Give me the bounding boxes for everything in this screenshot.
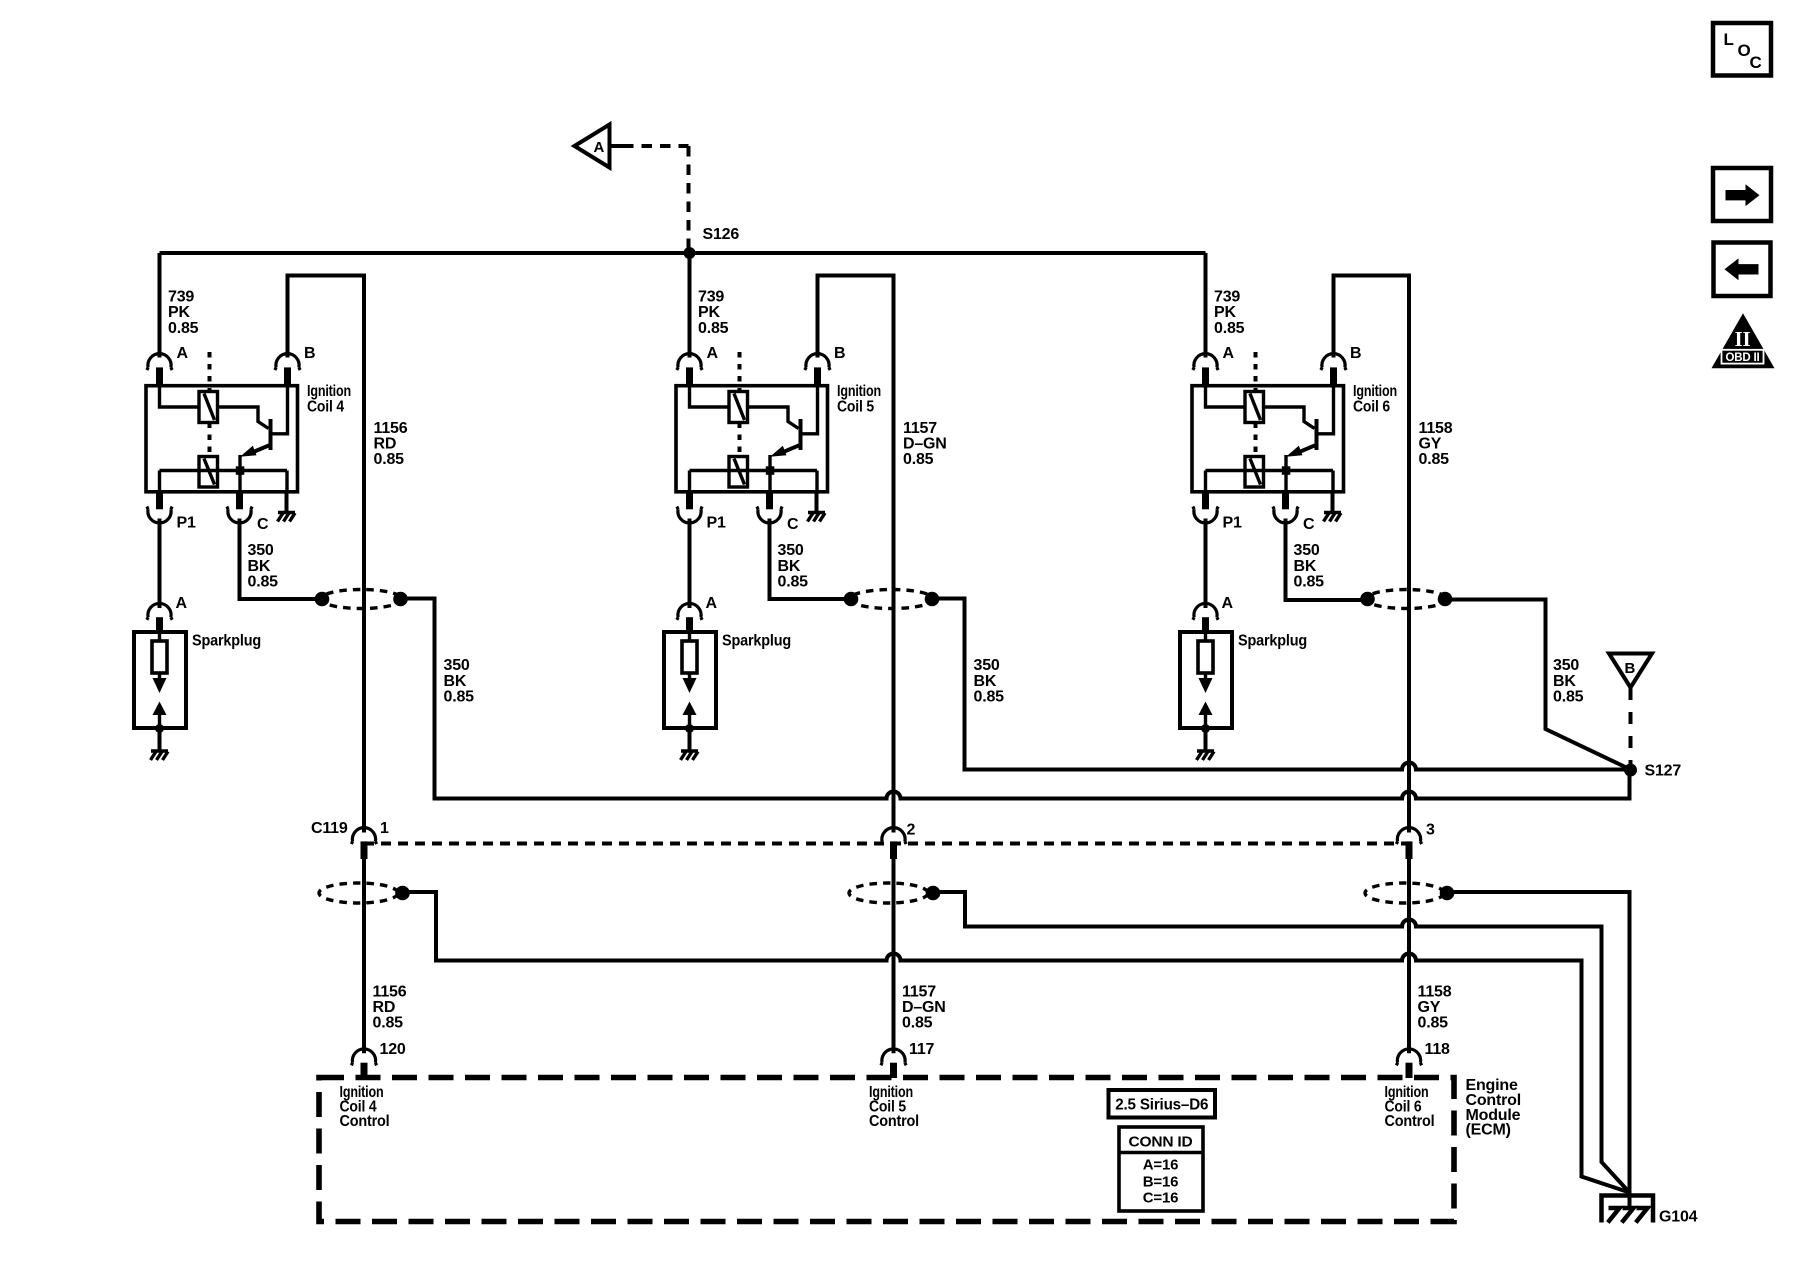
label 1157 D–GN 0.85 upper	[903, 420, 947, 468]
svg-text:1157: 1157	[902, 983, 936, 1000]
label 1157 D–GN 0.85 lower	[902, 983, 946, 1031]
connector pass-through ellipse coil 5 row1	[850, 590, 934, 609]
svg-text:G104: G104	[1659, 1209, 1698, 1226]
label 350 BK 0.85 coil 4	[248, 542, 279, 591]
coil 6 pin A	[1193, 345, 1235, 386]
engine control module box (dashed)	[319, 1078, 1454, 1222]
label ignition coil 6	[1353, 383, 1397, 415]
ignition coil 5 box	[676, 386, 828, 492]
coil 6 emitter to pin C wire	[1284, 455, 1287, 492]
svg-text:BK: BK	[1553, 673, 1576, 690]
svg-text:0.85: 0.85	[778, 574, 809, 591]
wire coil 4 P1 to sparkplug	[158, 519, 162, 609]
coil 4 core (dashed)	[208, 352, 212, 457]
splice S126	[684, 226, 740, 259]
svg-text:739: 739	[1214, 288, 1240, 305]
sparkplug 5 box	[664, 632, 791, 728]
svg-text:BK: BK	[1294, 558, 1317, 575]
off-page connector triangle B	[1609, 654, 1652, 688]
svg-text:0.85: 0.85	[974, 689, 1005, 706]
ECM pin 118	[1396, 1041, 1450, 1078]
wire 739 PK to coil 6 pin A	[1204, 253, 1208, 358]
coil 5 pin B	[805, 345, 846, 386]
svg-text:B: B	[1625, 660, 1636, 677]
wire coil 6 P1 to sparkplug	[1204, 519, 1208, 609]
label ignition coil 6 control	[1385, 1084, 1435, 1130]
sparkplug 6 ground	[1197, 724, 1215, 760]
svg-text:RD: RD	[374, 435, 397, 452]
coil 4 primary winding	[199, 392, 218, 423]
svg-text:BK: BK	[248, 558, 271, 575]
sparkplug 4 pin A	[147, 595, 188, 632]
svg-text:0.85: 0.85	[373, 1014, 404, 1031]
sparkplug 5 resistor	[682, 632, 697, 673]
svg-text:D–GN: D–GN	[902, 999, 946, 1016]
label ignition coil 5 control	[869, 1084, 919, 1130]
splice dot coil 5 row2	[926, 886, 941, 901]
sparkplug 5 gap arrows	[683, 673, 697, 728]
connector C119 pin 2	[881, 822, 916, 860]
svg-text:1158: 1158	[1419, 420, 1453, 437]
label engine control module	[1466, 1077, 1521, 1139]
coil 6 secondary winding	[1245, 457, 1264, 488]
wire 739 PK to coil 5 pin A	[688, 253, 692, 358]
svg-text:350: 350	[778, 542, 804, 559]
connector pass-through ellipse coil 6 row2	[1365, 883, 1444, 903]
transistor Q5 collector wire from pin B	[801, 386, 818, 434]
coil 6 core (dashed)	[1254, 352, 1258, 457]
sparkplug 4 ground	[151, 724, 169, 760]
svg-text:A: A	[177, 345, 189, 362]
svg-text:Coil 5: Coil 5	[837, 398, 874, 415]
off-page connector triangle A	[575, 125, 610, 168]
svg-text:0.85: 0.85	[1553, 689, 1584, 706]
connector C119 pin 3	[1396, 822, 1435, 860]
splice dot coil 6 row2	[1440, 886, 1455, 901]
sparkplug 6 resistor	[1198, 632, 1213, 673]
transistor Q5 base bar	[799, 419, 803, 450]
svg-text:Coil 6: Coil 6	[1353, 398, 1390, 415]
CONN ID table	[1119, 1127, 1203, 1211]
svg-text:D–GN: D–GN	[903, 435, 947, 452]
connector C119 pin 1	[351, 820, 389, 859]
svg-text:II: II	[1735, 327, 1751, 351]
svg-text:2: 2	[907, 822, 916, 839]
svg-text:Control: Control	[340, 1113, 390, 1130]
label 1158 GY 0.85 upper	[1419, 420, 1453, 468]
svg-text:739: 739	[698, 288, 724, 305]
coil 5 primary winding	[729, 392, 748, 423]
coil 4 internal junction	[236, 466, 245, 475]
transistor Q6 emitter	[1286, 444, 1318, 457]
sparkplug 4 gap arrows	[153, 673, 167, 728]
svg-text:PK: PK	[168, 304, 190, 321]
svg-text:350: 350	[1294, 542, 1320, 559]
svg-text:BK: BK	[778, 558, 801, 575]
svg-text:PK: PK	[698, 304, 720, 321]
svg-text:C: C	[257, 516, 269, 533]
wire 350 BK coil 5 pin C to splice	[770, 519, 845, 600]
wire 350 BK coil 4 pin C to splice	[240, 519, 316, 600]
label 2.5 Sirius-D6	[1109, 1090, 1216, 1118]
connector pass-through ellipse coil 5 row2	[849, 883, 928, 903]
coil 5 secondary winding	[729, 457, 748, 488]
svg-text:BK: BK	[974, 673, 997, 690]
coil 5 pin A	[677, 345, 719, 386]
svg-text:Sparkplug: Sparkplug	[722, 633, 791, 650]
ignition coil 4 box	[146, 386, 298, 492]
sparkplug 5 ground	[681, 724, 699, 760]
splice S127	[1624, 762, 1681, 779]
svg-text:CONN ID: CONN ID	[1129, 1134, 1193, 1151]
svg-text:0.85: 0.85	[248, 574, 279, 591]
wire 350 BK coil 4 to S127	[401, 599, 1630, 799]
svg-text:A=16: A=16	[1143, 1157, 1178, 1174]
ECM pin 117	[881, 1041, 935, 1078]
label 350 BK 0.85 route 5	[974, 657, 1005, 706]
connector C119 label	[311, 820, 348, 837]
svg-text:0.85: 0.85	[902, 1014, 933, 1031]
coil 5 internal wire A to primary	[690, 386, 730, 407]
splice dot coil 4 row2	[395, 886, 410, 901]
svg-text:Sparkplug: Sparkplug	[1238, 633, 1307, 650]
coil 6 internal wire A to primary	[1206, 386, 1246, 407]
coil 6 case ground	[1324, 492, 1342, 522]
svg-text:0.85: 0.85	[698, 320, 729, 337]
splice dot coil 4 row1 left	[315, 592, 330, 607]
svg-text:0.85: 0.85	[1214, 320, 1245, 337]
coil 6 wire primary to transistor base	[1264, 407, 1315, 429]
ground G104	[1602, 1196, 1698, 1226]
coil 5 internal junction	[766, 466, 775, 475]
svg-text:1: 1	[380, 820, 389, 837]
wire coil 4 pin B to wire 1156	[288, 276, 365, 833]
svg-text:0.85: 0.85	[1294, 574, 1325, 591]
svg-text:Control: Control	[1385, 1113, 1435, 1130]
svg-text:P1: P1	[707, 515, 726, 532]
svg-text:GY: GY	[1419, 435, 1442, 452]
splice dot coil 5 row1 left	[844, 592, 859, 607]
coil 4 wire primary to transistor base	[218, 407, 269, 429]
svg-text:350: 350	[444, 657, 470, 674]
svg-text:3: 3	[1426, 822, 1435, 839]
coil 6 pin C	[1273, 492, 1315, 533]
ground wire coil 4 control to G104	[403, 892, 1630, 1193]
forward arrow icon	[1713, 168, 1771, 221]
label 1156 RD 0.85 lower	[373, 983, 407, 1031]
wire 350 BK coil 5 to S127	[932, 599, 1631, 770]
svg-text:0.85: 0.85	[903, 451, 934, 468]
LOC legend box icon	[1713, 23, 1771, 76]
svg-text:B: B	[834, 345, 845, 362]
svg-text:B: B	[1350, 345, 1361, 362]
svg-text:RD: RD	[373, 999, 396, 1016]
sparkplug 6 pin A	[1193, 595, 1234, 632]
splice dot coil 6 row1 left	[1360, 592, 1375, 607]
transistor Q6 collector wire from pin B	[1317, 386, 1334, 434]
wire 350 BK coil 6 pin C to splice	[1286, 519, 1362, 601]
transistor Q6 base bar	[1315, 419, 1319, 450]
wire 1156 C119 to ECM pin	[362, 859, 366, 1053]
wire coil 5 pin B to wire 1157	[818, 276, 894, 833]
splice dot coil 4 row1 right	[393, 592, 408, 607]
sparkplug 6 gap arrows	[1199, 673, 1213, 728]
svg-text:1158: 1158	[1418, 983, 1452, 1000]
coil 5 case ground	[808, 492, 826, 522]
wire 350 BK coil 6 to S127	[1445, 600, 1631, 770]
coil 4 case ground	[278, 492, 296, 522]
wire coil 6 pin B to wire 1158	[1334, 276, 1410, 833]
svg-text:A: A	[176, 595, 188, 612]
svg-text:118: 118	[1425, 1041, 1451, 1058]
wire 739 PK bus	[160, 251, 1206, 255]
wire from triangle A (dashed)	[610, 146, 689, 249]
svg-text:C: C	[787, 516, 799, 533]
sparkplug 5 pin A	[677, 595, 718, 632]
label ignition coil 5	[837, 383, 881, 415]
svg-text:2.5 Sirius–D6: 2.5 Sirius–D6	[1115, 1097, 1208, 1114]
svg-text:120: 120	[380, 1041, 406, 1058]
svg-text:0.85: 0.85	[168, 320, 199, 337]
splice dot coil 5 row1 right	[925, 592, 940, 607]
label 1156 RD 0.85 upper	[374, 420, 408, 468]
svg-text:117: 117	[909, 1041, 935, 1058]
coil 4 emitter to pin C wire	[238, 455, 241, 492]
ground wire coil 6 control to G104	[1447, 892, 1630, 1208]
wire S127 to triangle B (dashed)	[1629, 688, 1633, 766]
label 350 BK 0.85 route 4	[444, 657, 475, 706]
transistor Q4 emitter	[240, 444, 272, 457]
label 739 PK 0.85 coil 5	[698, 288, 729, 337]
coil 5 pin P1	[677, 492, 726, 532]
svg-text:Coil 4: Coil 4	[307, 398, 344, 415]
coil 4 pin A	[147, 345, 189, 386]
svg-text:A: A	[706, 595, 718, 612]
coil 5 internal bottom wire	[690, 471, 818, 492]
svg-text:0.85: 0.85	[374, 451, 405, 468]
label 739 PK 0.85 coil 4	[168, 288, 199, 337]
svg-text:739: 739	[168, 288, 194, 305]
svg-text:OBD II: OBD II	[1726, 352, 1760, 364]
svg-text:(ECM): (ECM)	[1466, 1122, 1511, 1139]
svg-text:BK: BK	[444, 673, 467, 690]
coil 5 emitter to pin C wire	[768, 455, 771, 492]
coil 6 internal junction	[1282, 466, 1291, 475]
svg-text:C: C	[1303, 516, 1315, 533]
label 350 BK 0.85 route 6	[1553, 657, 1584, 706]
wire 739 PK to coil 4 pin A	[158, 253, 162, 358]
svg-text:A: A	[1222, 595, 1234, 612]
connector C119 dashed line	[364, 842, 1409, 846]
sparkplug 6 box	[1180, 632, 1307, 728]
transistor Q4 base bar	[269, 419, 273, 450]
svg-text:B: B	[304, 345, 315, 362]
label 1158 GY 0.85 lower	[1418, 983, 1452, 1031]
svg-text:GY: GY	[1418, 999, 1441, 1016]
svg-text:S126: S126	[703, 226, 740, 243]
coil 5 pin C	[757, 492, 799, 533]
transistor Q5 emitter	[770, 444, 802, 457]
svg-text:PK: PK	[1214, 304, 1236, 321]
coil 4 internal wire A to primary	[160, 386, 200, 407]
svg-text:A: A	[594, 139, 605, 156]
svg-text:S127: S127	[1645, 762, 1682, 779]
ground wire coil 5 control to G104	[933, 892, 1630, 1193]
svg-text:1156: 1156	[374, 420, 408, 437]
connector pass-through ellipse coil 6 row1	[1366, 590, 1447, 609]
svg-text:L: L	[1724, 30, 1734, 49]
transistor Q4 collector wire from pin B	[271, 386, 288, 434]
sparkplug 4 resistor	[152, 632, 167, 673]
svg-text:A: A	[707, 345, 719, 362]
wire 1158 C119 to ECM pin	[1407, 859, 1411, 1053]
coil 6 internal bottom wire	[1206, 471, 1334, 492]
coil 5 core (dashed)	[738, 352, 742, 457]
svg-text:350: 350	[974, 657, 1000, 674]
svg-text:C=16: C=16	[1143, 1190, 1178, 1207]
svg-text:P1: P1	[177, 515, 196, 532]
label ignition coil 4	[307, 383, 351, 415]
back arrow icon	[1714, 243, 1771, 297]
svg-text:350: 350	[248, 542, 274, 559]
wire 1157 C119 to ECM pin	[892, 859, 896, 1053]
connector pass-through ellipse coil 4 row2	[319, 883, 398, 903]
coil 6 primary winding	[1245, 392, 1264, 423]
coil 6 pin B	[1321, 345, 1362, 386]
svg-text:1156: 1156	[373, 983, 407, 1000]
label ignition coil 4 control	[340, 1084, 390, 1130]
coil 6 pin P1	[1193, 492, 1242, 532]
coil 5 wire primary to transistor base	[748, 407, 799, 429]
label 350 BK 0.85 coil 6	[1294, 542, 1325, 591]
svg-text:B=16: B=16	[1143, 1173, 1178, 1190]
sparkplug 4 box	[134, 632, 261, 728]
svg-text:P1: P1	[1223, 515, 1242, 532]
label 350 BK 0.85 coil 5	[778, 542, 809, 591]
coil 4 pin P1	[147, 492, 196, 532]
ignition coil 6 box	[1192, 386, 1344, 492]
svg-text:0.85: 0.85	[1418, 1014, 1449, 1031]
svg-text:0.85: 0.85	[444, 689, 475, 706]
coil 4 pin B	[275, 345, 316, 386]
connector pass-through ellipse coil 4 row1	[321, 590, 403, 609]
splice dot coil 6 row1 right	[1438, 592, 1453, 607]
label 739 PK 0.85 coil 6	[1214, 288, 1245, 337]
svg-text:A: A	[1223, 345, 1235, 362]
svg-text:350: 350	[1553, 657, 1579, 674]
svg-text:0.85: 0.85	[1419, 451, 1450, 468]
svg-text:Control: Control	[869, 1113, 919, 1130]
coil 4 secondary winding	[199, 457, 218, 488]
OBD II triangle icon	[1712, 313, 1775, 368]
svg-text:1157: 1157	[903, 420, 937, 437]
coil 4 pin C	[227, 492, 269, 533]
coil 4 internal bottom wire	[160, 471, 288, 492]
svg-text:C119: C119	[311, 820, 348, 837]
ECM pin 120	[351, 1041, 406, 1078]
svg-text:Sparkplug: Sparkplug	[192, 633, 261, 650]
wire coil 5 P1 to sparkplug	[688, 519, 692, 609]
svg-text:C: C	[1750, 53, 1762, 72]
